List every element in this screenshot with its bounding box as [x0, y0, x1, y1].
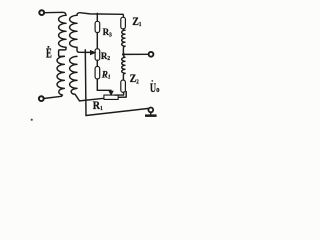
svg-text:R3: R3 [103, 28, 112, 39]
svg-text:E: E [46, 47, 52, 61]
svg-text:Z2: Z2 [130, 72, 139, 85]
svg-text:R1: R1 [101, 70, 111, 81]
svg-text:R1: R1 [93, 99, 103, 112]
svg-text:Z1: Z1 [132, 15, 141, 28]
svg-text:R2: R2 [101, 52, 110, 63]
svg-text:0: 0 [156, 87, 159, 94]
svg-text:U: U [150, 81, 156, 95]
